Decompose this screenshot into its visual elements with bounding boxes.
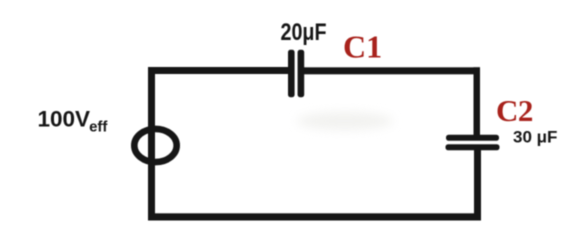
wire: right vertical upper segment	[474, 67, 481, 136]
capacitor C1 right plate	[298, 50, 305, 97]
capacitor C2 bottom plate	[446, 144, 500, 150]
faint photo smudge in background	[297, 112, 393, 130]
wire: bottom horizontal	[148, 213, 481, 220]
svg-text:20μF: 20μF	[281, 19, 327, 46]
svg-text:100Veff: 100Veff	[38, 107, 109, 136]
wire: top-left horizontal segment	[148, 67, 289, 74]
capacitor C2 top plate	[446, 135, 499, 141]
svg-text:C2: C2	[496, 93, 533, 128]
wire: top-right horizontal segment	[304, 67, 480, 74]
capacitor C1 left plate	[288, 50, 295, 97]
svg-text:30 μF: 30 μF	[513, 128, 557, 147]
svg-text:C1: C1	[343, 29, 382, 65]
wire: left vertical	[148, 67, 155, 221]
wire: right vertical lower segment	[474, 149, 481, 221]
voltage source V1 (AC source ellipse)	[134, 129, 176, 162]
